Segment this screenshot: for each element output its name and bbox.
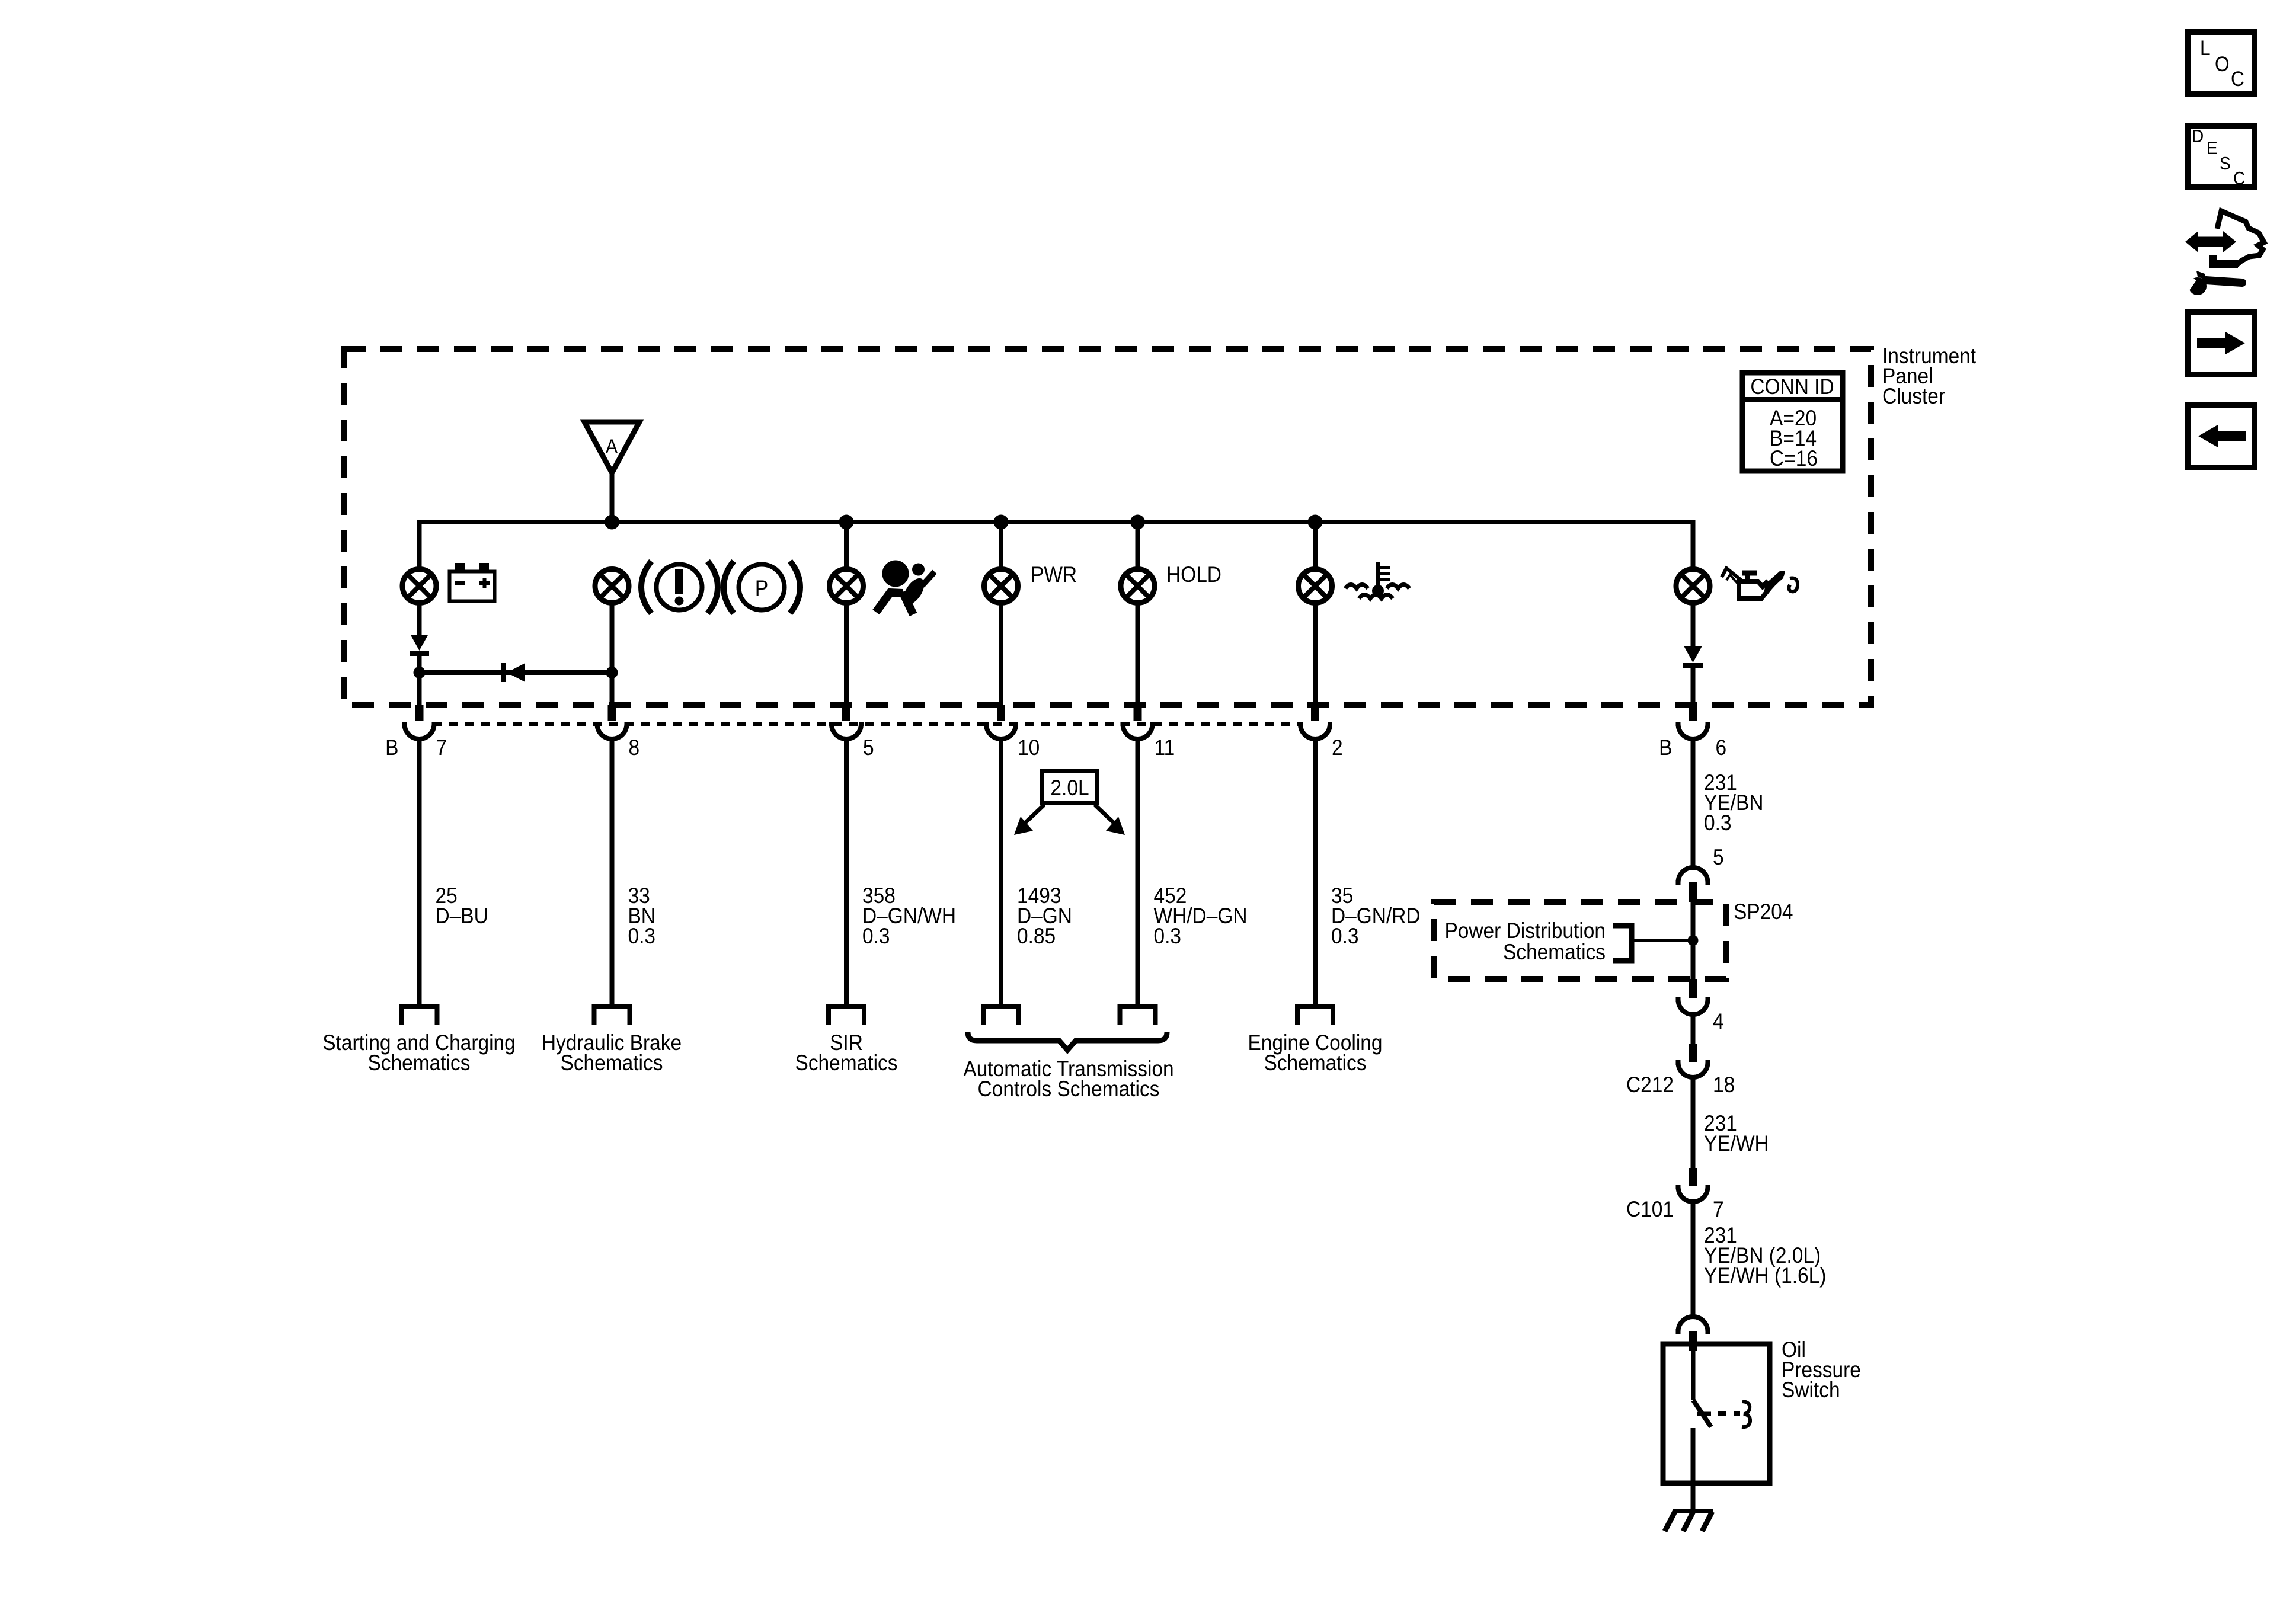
SP204 splice dashed box bbox=[1434, 902, 1726, 979]
connector pin 10 terminal arc bbox=[984, 724, 1018, 739]
DESC nav box bbox=[2188, 126, 2255, 188]
wire SIR lamp down bbox=[844, 605, 849, 708]
svg-text:C: C bbox=[2233, 168, 2245, 189]
label wire 35 bbox=[1331, 884, 1421, 948]
label wire 358 bbox=[862, 884, 956, 948]
diode on charge lamp wire bbox=[410, 635, 429, 654]
svg-text:PWR: PWR bbox=[1031, 562, 1077, 587]
wire HOLD lamp down bbox=[1136, 605, 1140, 708]
label Engine Cooling Schematics bbox=[1248, 1030, 1383, 1075]
wire bus to PWR lamp bbox=[999, 522, 1003, 569]
svg-text:P: P bbox=[755, 576, 768, 600]
brace for automatic transmission bbox=[968, 1032, 1167, 1050]
switch blade bbox=[1693, 1400, 1711, 1427]
male stub into switch bbox=[1689, 1331, 1697, 1351]
svg-text:Schematics: Schematics bbox=[795, 1051, 898, 1075]
wire coolant lamp down bbox=[1313, 605, 1318, 708]
Oil Pressure Switch label bbox=[1782, 1337, 1861, 1402]
switch pressure actuator symbol bbox=[1742, 1401, 1750, 1427]
label 231 YE/WH bbox=[1704, 1111, 1769, 1156]
svg-text:6: 6 bbox=[1715, 735, 1726, 760]
wire A to bus bbox=[610, 473, 615, 522]
connector pin 7 terminal arc bbox=[402, 724, 437, 739]
svg-text:Schematics: Schematics bbox=[1503, 940, 1606, 964]
svg-text:7: 7 bbox=[1713, 1197, 1724, 1221]
off-page terminal under pin 11 bbox=[1118, 1007, 1158, 1025]
off-page terminal under pin 5 bbox=[826, 1007, 866, 1025]
connector A triangle bbox=[584, 422, 639, 473]
2.0L arrow right bbox=[1095, 805, 1125, 835]
svg-text:Schematics: Schematics bbox=[561, 1051, 663, 1075]
label Power Distribution Schematics bbox=[1444, 918, 1606, 964]
wire through SP204 bbox=[1691, 902, 1696, 979]
svg-text:E: E bbox=[2207, 138, 2218, 159]
oil can icon bbox=[1722, 568, 1798, 598]
2.0L callout box bbox=[1043, 772, 1098, 804]
crossover wire with diode bbox=[414, 663, 618, 682]
svg-text:4: 4 bbox=[1713, 1009, 1724, 1033]
connector pin 5 stub bbox=[842, 705, 850, 721]
svg-text:11: 11 bbox=[1154, 735, 1175, 760]
label Hydraulic Brake Schematics bbox=[542, 1030, 682, 1075]
Instrument Panel Cluster dashed box bbox=[344, 349, 1871, 705]
label SIR Schematics bbox=[795, 1030, 898, 1075]
wire bus to battery lamp bbox=[417, 522, 422, 569]
bracket for power distribution bbox=[1613, 926, 1632, 961]
svg-text:S: S bbox=[2220, 153, 2231, 174]
svg-text:Schematics: Schematics bbox=[1264, 1051, 1367, 1075]
indicator lamp HOLD bbox=[1121, 569, 1155, 603]
switch internal wire top bbox=[1691, 1342, 1696, 1400]
nav arrow right box bbox=[2188, 312, 2255, 375]
svg-text:0.3: 0.3 bbox=[1704, 811, 1732, 835]
svg-text:C212: C212 bbox=[1626, 1073, 1674, 1097]
svg-text:C: C bbox=[2231, 68, 2244, 91]
node SP204 junction dot bbox=[1688, 935, 1699, 946]
connector pin 8 terminal arc bbox=[595, 724, 629, 739]
connector pin 11 terminal arc bbox=[1121, 724, 1155, 739]
connector C101 terminal cup bbox=[1676, 1187, 1710, 1202]
svg-text:2: 2 bbox=[1332, 735, 1343, 760]
Instrument Panel Cluster label bbox=[1882, 344, 1976, 408]
off-page terminal under pin 7 bbox=[399, 1007, 440, 1025]
indicator lamp oil pressure bbox=[1676, 569, 1710, 603]
diagnostic wrench icon bbox=[2181, 211, 2264, 295]
wire diode to pin 6 bbox=[1691, 665, 1696, 708]
indicator lamp charge (battery) bbox=[402, 569, 436, 603]
wire from pin 5 bbox=[844, 740, 849, 1007]
wire C212 down bbox=[1691, 1078, 1696, 1168]
svg-text:HOLD: HOLD bbox=[1166, 562, 1221, 587]
svg-text:C101: C101 bbox=[1626, 1197, 1674, 1221]
inline terminal dome at 5 bbox=[1676, 868, 1710, 882]
svg-text:8: 8 bbox=[628, 735, 639, 760]
svg-text:YE/WH (1.6L): YE/WH (1.6L) bbox=[1704, 1263, 1826, 1288]
battery icon bbox=[450, 563, 495, 601]
off-page terminal under pin 8 bbox=[592, 1007, 632, 1025]
svg-text:Power Distribution: Power Distribution bbox=[1444, 918, 1606, 943]
svg-text:10: 10 bbox=[1018, 735, 1040, 760]
svg-text:0.85: 0.85 bbox=[1017, 924, 1056, 948]
wire bus to HOLD lamp bbox=[1136, 522, 1140, 569]
svg-text:CONN ID: CONN ID bbox=[1750, 375, 1834, 399]
svg-text:O: O bbox=[2215, 53, 2230, 76]
connector pin 7 stub bbox=[415, 705, 424, 721]
label wire 1493 bbox=[1017, 884, 1072, 948]
indicator lamp PWR bbox=[984, 569, 1018, 603]
label 231 YE/BN 0.3 bbox=[1704, 770, 1763, 835]
male stub above C101 bbox=[1689, 1168, 1697, 1186]
svg-text:5: 5 bbox=[1713, 845, 1724, 869]
wire from pin 2 bbox=[1313, 740, 1318, 1007]
connector pin 10 stub bbox=[997, 705, 1005, 721]
svg-text:Switch: Switch bbox=[1782, 1378, 1840, 1402]
connector pin 8 stub bbox=[608, 705, 616, 721]
wire pin6 to splice connector bbox=[1691, 740, 1696, 868]
svg-text:B: B bbox=[385, 735, 398, 760]
wire from pin 7 bbox=[417, 740, 422, 1007]
wire lamp 8 down bbox=[610, 605, 615, 708]
wire lamp to diode bbox=[417, 605, 422, 635]
wire from pin 8 bbox=[610, 740, 615, 1007]
brake warning icon (!) bbox=[641, 561, 718, 613]
label wire 33 bbox=[628, 884, 656, 948]
svg-text:Schematics: Schematics bbox=[368, 1051, 471, 1075]
label wire 25 bbox=[435, 884, 488, 928]
svg-text:L: L bbox=[2200, 37, 2211, 60]
wire bracket to splice bbox=[1632, 939, 1693, 942]
diode on oil lamp wire bbox=[1683, 646, 1703, 665]
indicator lamp brake warning bbox=[595, 569, 629, 603]
LOC nav box bbox=[2188, 32, 2255, 94]
svg-text:D: D bbox=[2192, 126, 2204, 147]
label Automatic Transmission Controls Schematics bbox=[963, 1057, 1173, 1101]
2.0L arrow left bbox=[1014, 805, 1044, 835]
CONN ID table bbox=[1740, 373, 1845, 471]
svg-text:0.3: 0.3 bbox=[628, 924, 656, 948]
wire bus to coolant lamp bbox=[1313, 522, 1318, 569]
male stub below dome 5 bbox=[1689, 882, 1697, 902]
svg-text:YE/WH: YE/WH bbox=[1704, 1131, 1769, 1156]
svg-text:Controls Schematics: Controls Schematics bbox=[978, 1077, 1160, 1101]
connector B dashed line bbox=[433, 722, 1300, 726]
wire C101 to oil pressure switch bbox=[1691, 1202, 1696, 1317]
wire oil lamp to diode bbox=[1691, 605, 1696, 646]
ground symbol bbox=[1665, 1511, 1713, 1531]
connector pin 11 stub bbox=[1134, 705, 1142, 721]
svg-text:0.3: 0.3 bbox=[1331, 924, 1359, 948]
bus wire bbox=[420, 522, 1693, 569]
male stub above C212 bbox=[1689, 1044, 1697, 1062]
svg-text:18: 18 bbox=[1713, 1073, 1735, 1097]
svg-text:2.0L: 2.0L bbox=[1050, 776, 1089, 800]
connector pin 6 stub bbox=[1689, 705, 1697, 721]
svg-text:7: 7 bbox=[436, 735, 447, 760]
svg-text:SP204: SP204 bbox=[1734, 900, 1793, 924]
svg-text:5: 5 bbox=[863, 735, 874, 760]
wire diode to pin 7 bbox=[417, 654, 422, 708]
svg-text:Cluster: Cluster bbox=[1882, 384, 1945, 408]
switch actuator dashed link bbox=[1718, 1411, 1740, 1416]
Oil Pressure Switch box bbox=[1663, 1344, 1770, 1483]
connector pin 6 terminal arc bbox=[1676, 724, 1710, 739]
switch lower contact wire bbox=[1691, 1428, 1696, 1511]
wire from pin 11 bbox=[1136, 740, 1140, 1007]
airbag icon bbox=[876, 561, 935, 615]
label wire 452 bbox=[1154, 884, 1248, 948]
switch blade tick bbox=[1697, 1412, 1711, 1416]
label 231 YE/BN YE/WH bbox=[1704, 1223, 1826, 1288]
male stub below SP204 bbox=[1689, 979, 1697, 998]
wire from pin 10 bbox=[999, 740, 1003, 1007]
indicator lamp engine coolant temp bbox=[1299, 569, 1332, 603]
inline terminal dome at switch bbox=[1676, 1317, 1710, 1331]
indicator lamp SIR (airbag) bbox=[830, 569, 864, 603]
wire bus to SIR lamp bbox=[844, 522, 849, 569]
svg-text:0.3: 0.3 bbox=[1154, 924, 1182, 948]
off-page terminal under pin 2 bbox=[1295, 1007, 1335, 1025]
coolant temperature icon bbox=[1345, 562, 1409, 598]
svg-text:A: A bbox=[606, 436, 618, 458]
wire PWR lamp down bbox=[999, 605, 1003, 708]
svg-text:D–BU: D–BU bbox=[435, 904, 488, 928]
inline terminal cup at 4 bbox=[1676, 1000, 1710, 1014]
node junction dots on bus bbox=[605, 515, 619, 530]
connector pin 2 stub bbox=[1311, 705, 1319, 721]
svg-text:B: B bbox=[1659, 735, 1672, 760]
svg-text:C=16: C=16 bbox=[1770, 446, 1818, 470]
connector pin 5 terminal arc bbox=[829, 724, 864, 739]
label Starting and Charging Schematics bbox=[322, 1030, 516, 1075]
off-page terminal under pin 10 bbox=[981, 1007, 1021, 1025]
svg-text:0.3: 0.3 bbox=[862, 924, 890, 948]
connector C212 terminal cup bbox=[1676, 1062, 1710, 1077]
wire 4 to C212 bbox=[1691, 1015, 1696, 1045]
nav arrow left box bbox=[2188, 405, 2255, 468]
park brake icon (P) bbox=[724, 561, 800, 613]
connector pin 2 terminal arc bbox=[1298, 724, 1332, 739]
